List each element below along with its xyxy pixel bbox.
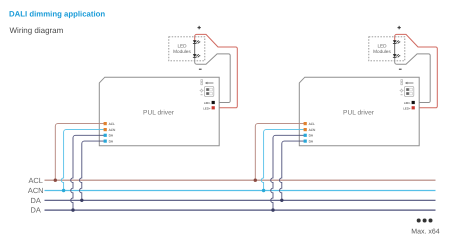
svg-text:PUL driver: PUL driver	[343, 109, 375, 116]
terminal ACN U1	[104, 128, 107, 131]
bus wire DA (1)	[45, 199, 436, 201]
plus marker U2	[398, 26, 401, 29]
terminal ACN U2	[304, 128, 307, 131]
svg-text:Wiring diagram: Wiring diagram	[10, 26, 64, 35]
wire ACL U2	[255, 124, 304, 181]
wire ACL U1	[55, 124, 104, 181]
svg-text:ACL: ACL	[309, 122, 315, 126]
LED D1 U2	[393, 40, 401, 43]
minus marker U1	[199, 68, 202, 70]
terminal DA1 U1	[104, 134, 107, 137]
wire LED- (gray) U1	[195, 54, 231, 103]
PUL driver U1 enclosure	[99, 77, 219, 146]
junction ACL U2	[254, 179, 257, 182]
wire DA to bottom bus U2	[271, 135, 305, 210]
LED D2 U1	[193, 54, 201, 57]
LED modules enclosure U2	[369, 37, 405, 61]
bus wire DA (2)	[45, 209, 436, 211]
svg-text:ACL: ACL	[29, 176, 43, 185]
terminal ACL U1	[104, 122, 107, 125]
svg-text:Modules: Modules	[173, 49, 191, 54]
junction DA bottom bus U2	[271, 208, 274, 211]
junction ACN U1	[62, 189, 65, 192]
wire LED string middle U2	[394, 44, 396, 55]
svg-text:LED: LED	[177, 44, 187, 49]
LED D2 U2	[393, 54, 401, 57]
terminal DA2 U1	[104, 140, 107, 143]
terminal DA2 U2	[304, 140, 307, 143]
junction DA upper bus U1	[80, 199, 83, 202]
wire LED string middle U1	[194, 44, 196, 55]
svg-text:ACN: ACN	[109, 128, 116, 132]
dimming selector icon U2	[400, 80, 414, 97]
terminal ACL U2	[304, 122, 307, 125]
svg-text:LED-: LED-	[204, 101, 211, 105]
junction DA upper bus U2	[280, 199, 283, 202]
svg-text:DALI dimming application: DALI dimming application	[9, 9, 105, 18]
svg-text:PUL driver: PUL driver	[143, 109, 175, 116]
svg-text:LED+: LED+	[403, 106, 411, 110]
svg-text:LED: LED	[377, 44, 387, 49]
minus marker U2	[399, 68, 402, 70]
wire ACN U1	[61, 130, 104, 191]
continuation dots	[417, 219, 421, 223]
wire LED+ (red) U1	[195, 34, 238, 107]
svg-text:ACN: ACN	[28, 186, 44, 195]
wire DA to bottom bus U1	[71, 135, 105, 210]
junction ACN U2	[262, 189, 265, 192]
svg-text:ACL: ACL	[109, 122, 115, 126]
svg-text:DA: DA	[31, 206, 41, 215]
junction DA bottom bus U1	[71, 208, 74, 211]
bus wire ACL	[45, 179, 436, 181]
wire LED- (gray) U2	[395, 54, 431, 103]
PUL driver U2 enclosure	[299, 77, 419, 146]
wire ACN U2	[261, 130, 304, 191]
svg-text:LED+: LED+	[203, 106, 211, 110]
bus wire ACN	[45, 190, 436, 192]
LED modules enclosure U1	[169, 37, 205, 61]
wire DA to upper DA bus U2	[280, 141, 305, 200]
plus marker U1	[198, 26, 201, 29]
svg-text:Max. x64: Max. x64	[411, 229, 440, 236]
dimming selector icon U1	[200, 80, 214, 97]
LED D1 U1	[193, 40, 201, 43]
svg-text:DA: DA	[31, 196, 41, 205]
junction ACL U1	[54, 179, 57, 182]
terminal DA1 U2	[304, 134, 307, 137]
svg-text:Modules: Modules	[373, 49, 391, 54]
wire LED+ (red) U2	[395, 34, 438, 107]
wire DA to upper DA bus U1	[80, 141, 105, 200]
svg-text:ACN: ACN	[309, 128, 316, 132]
svg-text:LED-: LED-	[404, 101, 411, 105]
